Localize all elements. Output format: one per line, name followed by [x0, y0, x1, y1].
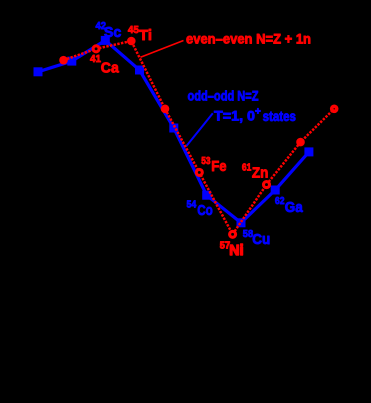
svg-text:Cu: Cu [252, 231, 270, 248]
svg-text:+: + [255, 107, 261, 118]
svg-text:T=1, 0: T=1, 0 [214, 109, 255, 124]
svg-text:Ti: Ti [139, 27, 152, 44]
blue solid series line (odd-odd N=Z) [38, 40, 309, 222]
red dashed series line (even-even N=Z + 1n) [64, 41, 335, 234]
marker 57Ni red open circle [230, 231, 236, 237]
svg-text:Co: Co [197, 202, 213, 219]
marker 49Cr red filled circle [161, 105, 170, 114]
svg-text:62: 62 [275, 195, 285, 207]
marker 38K blue square [67, 57, 76, 66]
red annotation pointer line to even-even text [141, 41, 184, 58]
blue annotation pointer line to T=1 text [186, 113, 213, 146]
marker 42Sc blue square [101, 36, 110, 45]
marker 61Zn red open circle [264, 182, 270, 188]
svg-text:Ga: Ga [285, 199, 304, 216]
svg-text:Sc: Sc [104, 24, 122, 41]
marker 66As blue square [304, 147, 313, 156]
marker 54Co blue square [202, 191, 211, 200]
marker 62Ga blue square [271, 186, 280, 195]
svg-text:odd–odd N=Z: odd–odd N=Z [188, 89, 259, 104]
svg-text:Fe: Fe [211, 158, 226, 175]
svg-text:54: 54 [187, 198, 197, 210]
marker 46V blue square [135, 66, 144, 75]
svg-text:61: 61 [242, 161, 252, 173]
svg-text:states: states [263, 109, 296, 124]
svg-text:Zn: Zn [252, 164, 269, 181]
svg-text:53: 53 [201, 155, 210, 167]
svg-text:Ca: Ca [101, 60, 120, 77]
marker 65Ge red filled circle [296, 138, 305, 147]
svg-text:45: 45 [128, 24, 139, 36]
marker 58Cu blue square [237, 218, 246, 227]
marker 69Se red filled circle with center dot [330, 105, 339, 114]
marker 34Cl blue square [34, 67, 43, 76]
marker 37Ar red filled circle [59, 56, 68, 65]
marker 53Fe red open circle [196, 169, 202, 175]
svg-text:Ni: Ni [229, 242, 243, 259]
marker 50Mn blue square [169, 124, 178, 133]
svg-text:41: 41 [90, 53, 101, 65]
marker 45Ti red filled circle [127, 37, 136, 46]
svg-text:even–even N=Z + 1n: even–even N=Z + 1n [186, 32, 311, 47]
marker 41Ca red open circle [93, 46, 99, 52]
